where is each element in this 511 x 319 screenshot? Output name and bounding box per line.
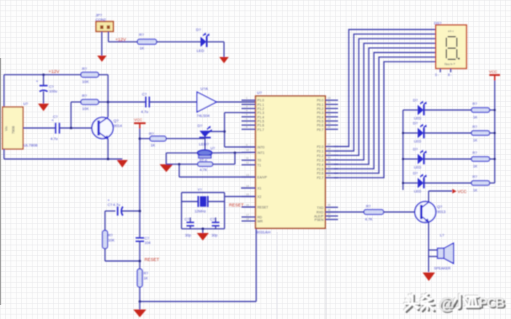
node collector junction bbox=[107, 101, 110, 104]
watermark 头条 @小亚PCB bbox=[404, 293, 505, 314]
svg-text:R?: R? bbox=[473, 175, 478, 179]
node mic-R7 junction bbox=[234, 151, 237, 154]
svg-text:P2.1: P2.1 bbox=[317, 150, 324, 154]
wire C4 to U2 bbox=[149, 101, 197, 103]
capacitor C8 30p bbox=[215, 218, 217, 223]
pin RXD (right) bbox=[325, 211, 338, 213]
svg-text:R?: R? bbox=[82, 66, 88, 71]
pin P0.7 (right) bbox=[325, 128, 338, 130]
wire +12V rail top left bbox=[4, 74, 81, 76]
svg-text:9013: 9013 bbox=[437, 210, 445, 214]
node branch junction bbox=[223, 130, 226, 133]
svg-text:R?: R? bbox=[139, 32, 145, 37]
resistor R7 4.7K bbox=[198, 162, 213, 166]
svg-text:RESET: RESET bbox=[145, 257, 160, 262]
ground arrow speaker bbox=[423, 273, 436, 282]
wire C5 left down bbox=[104, 211, 106, 231]
wire P2.0 to display segment bbox=[334, 30, 436, 147]
svg-text:VCC: VCC bbox=[134, 117, 142, 122]
svg-text:Dpy b-?: Dpy b-? bbox=[445, 62, 456, 66]
LED D6 bbox=[418, 178, 424, 188]
svg-text:L?: L? bbox=[440, 234, 444, 238]
svg-text:LED: LED bbox=[414, 166, 422, 170]
left edge artifact bbox=[0, 58, 2, 305]
pin P2.6 (right) bbox=[325, 172, 338, 174]
svg-text:3 -: 3 - bbox=[435, 73, 439, 77]
pin P2.2 (right) bbox=[325, 154, 338, 156]
svg-text:X1: X1 bbox=[257, 187, 261, 191]
wire JP1 pin2 to R1 bbox=[107, 32, 109, 42]
LED D1 bbox=[201, 37, 207, 47]
pin ALE/P (right) bbox=[325, 215, 338, 217]
svg-text:C?: C? bbox=[145, 236, 150, 240]
LED D4 bbox=[418, 128, 424, 138]
svg-text:Q?: Q? bbox=[114, 119, 119, 123]
MCU U3 8031 bbox=[256, 96, 326, 228]
capacitor C2 100u electrolytic bbox=[43, 75, 45, 86]
svg-text:VCC: VCC bbox=[489, 69, 497, 74]
pin X2 (left) bbox=[242, 196, 256, 198]
svg-text:D?: D? bbox=[413, 172, 418, 176]
svg-text:1K: 1K bbox=[473, 189, 478, 193]
wire to EA pin bbox=[179, 176, 255, 178]
svg-text:C?: C? bbox=[142, 92, 147, 96]
svg-text:7808: 7808 bbox=[12, 126, 16, 134]
svg-text:1K: 1K bbox=[473, 139, 478, 143]
wire Q1 emitter to ground rail bbox=[107, 139, 109, 159]
svg-text:LED: LED bbox=[414, 140, 422, 144]
svg-text:D?: D? bbox=[413, 99, 418, 103]
svg-text:VCC: VCC bbox=[458, 189, 467, 194]
LED D2 bbox=[200, 131, 211, 137]
wire bus to D6 bbox=[403, 182, 418, 184]
wire D2 top to column bbox=[205, 131, 225, 133]
svg-text:P2.3: P2.3 bbox=[317, 158, 324, 162]
svg-text:+: + bbox=[108, 198, 110, 202]
svg-text:R?: R? bbox=[108, 234, 113, 238]
column x179 down bbox=[178, 164, 180, 177]
svg-text:104: 104 bbox=[145, 241, 151, 245]
svg-text:Q?: Q? bbox=[437, 205, 442, 209]
speaker LS1 bbox=[438, 248, 445, 258]
regulator U1 module bbox=[3, 107, 24, 149]
pin P1.1 (left) bbox=[242, 103, 256, 105]
wire crystal bottom rail bbox=[182, 228, 225, 230]
svg-text:10K: 10K bbox=[82, 106, 89, 111]
resistor R12 1K bbox=[472, 181, 490, 186]
transistor Q2 9013 bbox=[415, 202, 436, 223]
ground arrow on rail bbox=[117, 160, 128, 168]
wire P2.6 to display segment bbox=[334, 57, 436, 173]
pin T1 (left) bbox=[242, 164, 256, 166]
svg-text:T0: T0 bbox=[257, 159, 261, 163]
wire to speaker pins bbox=[429, 249, 438, 251]
wire R11 to VCC rail bbox=[490, 158, 495, 160]
svg-text:+12V: +12V bbox=[115, 37, 127, 42]
svg-text:8 -: 8 - bbox=[448, 73, 452, 77]
svg-text:CON2: CON2 bbox=[96, 18, 107, 22]
ground arrow bottom bbox=[139, 302, 141, 310]
pin P1.3 (left) bbox=[242, 112, 256, 114]
svg-text:30p: 30p bbox=[212, 233, 218, 237]
resistor R6 1K vertical bbox=[137, 269, 142, 287]
wire Q2 collector to VCC label bbox=[428, 191, 430, 202]
svg-text:R?: R? bbox=[82, 93, 88, 98]
svg-text:LED?: LED? bbox=[199, 142, 210, 147]
ground rail bottom left bbox=[4, 158, 122, 160]
wire P2.3 to display segment bbox=[334, 43, 436, 160]
pin P0.6 (right) bbox=[325, 124, 338, 126]
svg-text:Y?: Y? bbox=[198, 188, 202, 192]
svg-text:R?: R? bbox=[473, 151, 478, 155]
pin P0.2 (right) bbox=[325, 108, 338, 110]
pin P0.5 (right) bbox=[325, 120, 338, 122]
node R4 tap bbox=[139, 137, 142, 140]
svg-text:a b c: a b c bbox=[448, 29, 454, 33]
resistor R4 1K to D2 bbox=[140, 138, 150, 140]
net label VCC at Q2 bbox=[452, 189, 456, 194]
svg-text:+12V: +12V bbox=[49, 69, 61, 74]
svg-text:100u: 100u bbox=[49, 89, 57, 93]
svg-text:74LS04: 74LS04 bbox=[197, 114, 210, 118]
wire P2.7 to display segment bbox=[334, 62, 436, 178]
pin P2.0 (right) bbox=[325, 146, 338, 148]
wire D6 to R12 bbox=[424, 182, 471, 184]
svg-text:R?: R? bbox=[473, 102, 478, 106]
wire mic row to INT1 bbox=[212, 151, 256, 154]
wire R10 to VCC rail bbox=[490, 132, 495, 134]
svg-text:Vin: Vin bbox=[5, 126, 9, 131]
wire bus to D5 bbox=[403, 158, 418, 160]
wire crystal top rail bbox=[182, 192, 225, 194]
svg-text:D?: D? bbox=[198, 123, 204, 128]
pin P1.0 (left) bbox=[242, 99, 256, 101]
pin TXD (right) bbox=[325, 206, 338, 208]
wire R5 to reset node bbox=[104, 249, 106, 262]
svg-text:D?: D? bbox=[196, 27, 202, 32]
red arrow mic bias bbox=[160, 164, 174, 172]
wire P2.1 to display segment bbox=[334, 34, 436, 151]
ground arrow below C2 bbox=[38, 104, 49, 112]
svg-text:1K: 1K bbox=[140, 46, 145, 51]
pin EA/VP (left) bbox=[242, 176, 256, 178]
wire bus to D3 bbox=[403, 109, 418, 111]
pin RESET (left) bbox=[242, 206, 256, 208]
svg-text:C?: C? bbox=[108, 203, 113, 207]
svg-text:U?: U? bbox=[257, 91, 262, 95]
wire C3 to Q1 base bbox=[59, 127, 98, 129]
pin X1 (left) bbox=[242, 187, 256, 189]
pin P2.3 (right) bbox=[325, 159, 338, 161]
svg-text:P2.6: P2.6 bbox=[317, 172, 324, 176]
pin P1.6 (left) bbox=[242, 124, 256, 126]
svg-text:P0.7: P0.7 bbox=[317, 128, 324, 132]
pin T0 (left) bbox=[242, 159, 256, 161]
wire JP1 pin1 to ground bbox=[101, 32, 103, 56]
resistor R5 10K vertical bbox=[103, 231, 108, 249]
wire X2 to MCU bbox=[225, 196, 256, 198]
svg-text:30p: 30p bbox=[185, 233, 191, 237]
display bottom pins bbox=[439, 69, 441, 73]
svg-text:RESET: RESET bbox=[257, 206, 268, 210]
svg-text:LED: LED bbox=[414, 190, 422, 194]
wire U2 output to MCU P1.0 bbox=[217, 101, 256, 103]
ground arrow at JP1 bbox=[97, 56, 107, 62]
svg-text:T1: T1 bbox=[257, 163, 261, 167]
wire D4 to R10 bbox=[424, 132, 471, 134]
resistor R2 10K feedback bbox=[71, 101, 81, 103]
transistor Q1 9014 bbox=[92, 117, 113, 138]
wire R12 to VCC rail bbox=[490, 182, 495, 184]
svg-text:C?: C? bbox=[53, 115, 58, 119]
svg-text:D?: D? bbox=[413, 148, 418, 152]
ground arrow crystal bbox=[197, 233, 209, 241]
svg-text:4.7K: 4.7K bbox=[365, 218, 373, 222]
pin P1.7 (left) bbox=[242, 128, 256, 130]
pin X1 stub bbox=[241, 187, 256, 189]
svg-text:4.7u: 4.7u bbox=[51, 137, 58, 141]
wire LED bus bbox=[402, 110, 404, 190]
svg-text:PSEN: PSEN bbox=[315, 218, 325, 222]
svg-text:U?: U? bbox=[211, 146, 215, 150]
svg-text:4.7u: 4.7u bbox=[141, 110, 148, 114]
wire R8 to Q2 base bbox=[384, 211, 422, 213]
svg-text:C?: C? bbox=[185, 218, 190, 222]
faint ghost line bbox=[325, 228, 327, 319]
svg-text:P2.0: P2.0 bbox=[317, 145, 324, 149]
buffer U2A bbox=[197, 92, 217, 112]
pin P1.2 (left) bbox=[242, 108, 256, 110]
pin P1.5 (left) bbox=[242, 120, 256, 122]
capacitor C3 4.7u bbox=[55, 123, 57, 134]
capacitor C5 4.7u reset bbox=[105, 210, 115, 212]
resistor R10 1K bbox=[472, 131, 490, 136]
capacitor C6 in column bbox=[136, 237, 144, 239]
pin P2.7 (right) bbox=[325, 177, 338, 179]
svg-text:12MHz: 12MHz bbox=[195, 210, 207, 214]
resistor R11 1K bbox=[472, 157, 490, 162]
svg-text:SPEAKER: SPEAKER bbox=[434, 266, 451, 270]
pin INT0 (left) bbox=[242, 146, 256, 148]
pin PSEN (right) bbox=[325, 219, 338, 221]
wire P2.5 to display segment bbox=[334, 53, 436, 169]
wire VCC column down bbox=[139, 129, 141, 238]
pin RESET stub bbox=[243, 206, 256, 208]
svg-text:U?A: U?A bbox=[201, 87, 209, 91]
wire R7 to column x235 bbox=[213, 163, 235, 165]
pin RD (left) bbox=[242, 216, 256, 218]
pin P1.4 (left) bbox=[242, 116, 256, 118]
microphone MK1 bbox=[198, 150, 212, 156]
svg-text:WR: WR bbox=[257, 220, 263, 224]
wire R1 to D1 bbox=[157, 41, 201, 43]
svg-text:1K: 1K bbox=[473, 116, 478, 120]
wire base to R2 feedback bbox=[70, 102, 72, 128]
pin P0.4 (right) bbox=[325, 116, 338, 118]
wire bus to D4 bbox=[403, 132, 418, 134]
display DS1 7-segment bbox=[436, 25, 467, 69]
svg-text:4.7K: 4.7K bbox=[200, 168, 208, 172]
wire D3 to R9 bbox=[424, 109, 471, 111]
connector JP1 power input bbox=[96, 22, 113, 32]
capacitor C7 30p bbox=[189, 218, 191, 223]
pin P0.1 (right) bbox=[325, 103, 338, 105]
svg-text:P1.7: P1.7 bbox=[257, 128, 264, 132]
svg-text:PCB: PCB bbox=[479, 295, 504, 310]
pin P2.5 (right) bbox=[325, 168, 338, 170]
pin P0.3 (right) bbox=[325, 112, 338, 114]
svg-text:UL7808: UL7808 bbox=[24, 142, 39, 147]
svg-text:1K: 1K bbox=[473, 165, 478, 169]
wire VCC rail down bbox=[494, 81, 496, 184]
svg-text:R?: R? bbox=[366, 205, 371, 209]
wire P2.4 to display segment bbox=[334, 48, 436, 164]
wire U1 output to C3 bbox=[23, 127, 56, 129]
wire P1.3 to branch column bbox=[225, 112, 256, 114]
wire D5 to R11 bbox=[424, 158, 471, 160]
svg-text:R?: R? bbox=[473, 125, 478, 129]
svg-text:U?: U? bbox=[23, 102, 28, 106]
pin P0.0 (right) bbox=[325, 99, 338, 101]
wire D1 to ground bbox=[207, 41, 224, 43]
wire bias row bbox=[166, 163, 198, 165]
wire crystal ground stem bbox=[202, 229, 204, 233]
svg-text:8031AH: 8031AH bbox=[256, 229, 271, 234]
svg-text:DS?: DS? bbox=[434, 22, 441, 26]
wire column to INT0 bbox=[225, 146, 256, 148]
svg-text:INT1: INT1 bbox=[257, 151, 264, 155]
resistor R1 1K bbox=[138, 39, 157, 44]
LED D3 bbox=[418, 105, 424, 115]
wire crystal right column bbox=[224, 193, 226, 229]
pin P2.4 (right) bbox=[325, 163, 338, 165]
svg-text:4.7u: 4.7u bbox=[113, 203, 120, 207]
svg-text:EA/VP: EA/VP bbox=[257, 176, 268, 180]
crystal Y1 bbox=[182, 201, 199, 203]
wire MCU to R8 bbox=[325, 211, 364, 213]
resistor R9 1K bbox=[472, 108, 490, 113]
wire R9 to VCC rail bbox=[490, 109, 495, 111]
node rail-C2 junction bbox=[42, 73, 45, 76]
wire D2 cathode to mic bbox=[204, 137, 206, 150]
svg-text:1K: 1K bbox=[151, 143, 156, 148]
svg-text:C?: C? bbox=[210, 218, 215, 222]
svg-text:@: @ bbox=[439, 295, 455, 313]
svg-text:1K: 1K bbox=[144, 277, 149, 281]
wire P2.2 to display segment bbox=[334, 39, 436, 156]
ground arrow right of D1 bbox=[219, 57, 229, 63]
ground rail bottom bbox=[140, 301, 256, 303]
svg-text:C?: C? bbox=[49, 85, 54, 89]
svg-text:P2.5: P2.5 bbox=[317, 167, 324, 171]
pin WR (left) bbox=[242, 220, 256, 222]
svg-text:X2: X2 bbox=[257, 195, 261, 199]
svg-text:INT0: INT0 bbox=[257, 146, 264, 150]
svg-text:10K: 10K bbox=[82, 79, 89, 84]
svg-text:P2.4: P2.4 bbox=[317, 163, 324, 167]
capacitor C4 coupling bbox=[145, 97, 147, 108]
svg-text:D?: D? bbox=[413, 122, 418, 126]
svg-text:TXD: TXD bbox=[317, 206, 324, 210]
wire mic corner down bbox=[165, 153, 167, 164]
LED D5 bbox=[418, 154, 424, 164]
svg-text:+: + bbox=[36, 80, 38, 84]
pin P2.1 (right) bbox=[325, 150, 338, 152]
wire mic row left corner bbox=[166, 152, 197, 154]
wire collector to C4 bbox=[108, 101, 146, 103]
wire R3 to collector column bbox=[99, 74, 109, 76]
svg-text:9014: 9014 bbox=[114, 124, 122, 128]
svg-text:LED: LED bbox=[414, 117, 422, 121]
svg-text:LED: LED bbox=[197, 48, 205, 53]
svg-text:R?: R? bbox=[144, 272, 149, 276]
resistor R3 10K collector load bbox=[81, 72, 99, 77]
svg-text:P2.7: P2.7 bbox=[317, 176, 324, 180]
pin INT1 (left) bbox=[242, 151, 256, 153]
resistor R8 4.7K bbox=[364, 210, 384, 215]
column below C6 bbox=[139, 241, 141, 301]
wire Q2 emitter down bbox=[428, 222, 430, 272]
svg-text:R?: R? bbox=[149, 131, 155, 136]
svg-text:10K: 10K bbox=[108, 239, 115, 243]
svg-text:P2.2: P2.2 bbox=[317, 154, 324, 158]
wire crystal left column bbox=[181, 193, 183, 229]
